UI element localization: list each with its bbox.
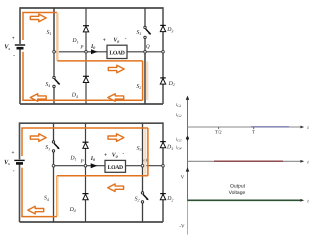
waveform vertical axis lower green-grey segment — [187, 201, 189, 235]
switch S2 open (bottom circuit) — [141, 192, 148, 203]
svg-text:Q: Q — [146, 44, 150, 50]
axis 3: output voltage time axis (green) — [188, 199, 302, 201]
wire: diode branch D1/D4 vertical x=85.5 (bottom circuit) — [85, 123, 87, 222]
svg-text:D3: D3 — [166, 27, 173, 33]
LOAD box (bottom circuit) — [105, 160, 126, 172]
svg-text:S3: S3 — [137, 146, 142, 152]
axis 3 arrowhead — [300, 199, 304, 202]
switch S1 open (bottom circuit) — [52, 141, 59, 152]
svg-text:+: + — [103, 37, 106, 43]
tick T/2 (axis 1) — [218, 127, 220, 129]
wire: right rail (top circuit) — [162, 7, 164, 104]
switch S4 closed (bottom circuit, straight blade) — [53, 166, 55, 222]
svg-text:-: - — [13, 53, 15, 59]
waveform axis diamond marker between plot2 and plot3 — [186, 167, 190, 171]
svg-text:-: - — [125, 36, 127, 42]
orange flow arrow right, top segment (top circuit) — [30, 14, 46, 22]
svg-text:LOAD: LOAD — [108, 165, 123, 171]
svg-text:D4: D4 — [69, 207, 76, 213]
svg-text:D2: D2 — [168, 81, 175, 87]
wire: switch branch S3/S2 vertical x=145 (top circuit) — [144, 8, 146, 26]
node junction right rail/load row (bottom circuit) — [162, 164, 165, 167]
svg-text:D3: D3 — [166, 145, 173, 151]
svg-text:Voltage: Voltage — [229, 190, 246, 196]
wire: orange current path S4 vertical pale band (bottom circuit) — [56, 176, 59, 216]
axis 2 red pulse segment — [214, 160, 283, 162]
orange flow arrow right, top segment east (bottom circuit) — [108, 134, 124, 142]
wire: top rail (bottom circuit) — [20, 122, 164, 124]
wire: left rail lower segment from battery (bottom circuit) — [19, 164, 21, 223]
wire: right rail (bottom circuit) — [162, 122, 164, 222]
node P junction (top circuit) — [85, 51, 88, 54]
svg-text:S3: S3 — [136, 30, 141, 36]
wire: orange current path S1 vertical core (top circuit) — [56, 13, 58, 61]
svg-text:P: P — [79, 44, 83, 50]
waveform vertical axis top arrowhead — [186, 96, 189, 100]
current arrow I0 (top circuit) — [91, 49, 98, 54]
current arrow I0 (bottom circuit) — [91, 163, 98, 168]
orange flow arrow left, bottom segment east (top circuit) — [108, 94, 124, 102]
wire: bottom rail (top circuit) — [20, 103, 163, 105]
svg-text:LOAD: LOAD — [109, 51, 124, 57]
wire: switch branch S1/S4 vertical x=53.5 (bottom circuit) — [53, 123, 55, 141]
orange flow arrow right, top segment west (bottom circuit) — [30, 134, 46, 142]
waveform axis diamond marker between plot1 and plot2 — [186, 136, 189, 141]
node Q junction (bottom circuit) — [141, 164, 144, 167]
svg-text:T: T — [252, 129, 255, 135]
wire: top rail (top circuit) — [20, 7, 163, 9]
axis 2: gating signal iG3/iG4 time axis — [188, 160, 303, 162]
wire: load row left segment P side (top circuit) — [54, 51, 107, 53]
wire: diode branch D1/D4 vertical x=86 (top circuit) — [85, 8, 87, 104]
battery Vs (bottom circuit) — [14, 160, 24, 163]
axis 2 arrowhead — [300, 160, 304, 163]
node junction at S-branch/load row (bottom circuit) — [52, 164, 55, 167]
wire: orange current path S3 vertical (bottom circuit) — [147, 128, 149, 176]
diode D2 (top circuit, right rail) — [160, 78, 166, 84]
switch S3 open (top circuit) — [144, 26, 151, 38]
wire: left rail lower segment from battery (top circuit) — [19, 48, 21, 104]
svg-text:V: V — [181, 174, 185, 180]
axis 1: gating signal iG1/iG2 time axis — [188, 126, 303, 128]
LOAD box (top circuit) — [107, 45, 127, 58]
svg-text:+: + — [12, 36, 15, 42]
wire: orange current path bottom horizontal (top circuit) — [22, 99, 142, 101]
switch S2 closed (top circuit, straight blade) — [144, 52, 146, 104]
wire: switch branch S1/S4 vertical x=54 (top circuit) — [53, 8, 55, 76]
svg-text:S4: S4 — [45, 82, 50, 88]
wire: orange current path under load (bottom circuit) — [57, 175, 148, 177]
svg-text:Output: Output — [230, 184, 246, 190]
wire: left rail upper segment to battery (bottom circuit) — [19, 122, 21, 159]
node junction right rail/load row (top circuit) — [162, 51, 165, 54]
wire: orange current path S1 vertical pale band (top circuit) — [56, 13, 59, 60]
wire: orange current path S4 vertical core (bottom circuit) — [56, 176, 58, 217]
svg-text:S2: S2 — [135, 196, 140, 202]
wire: switch branch S3/S2 vertical x=142.5 (bottom circuit) — [142, 166, 144, 192]
wire: orange current path S2 vertical (top circuit) — [142, 61, 144, 100]
svg-text:+: + — [12, 150, 15, 156]
wire: orange current path top horizontal (bottom circuit) — [21, 127, 148, 129]
switch S4 open (top circuit) — [53, 76, 60, 87]
svg-text:+: + — [104, 152, 107, 158]
diode D1 (bottom circuit) — [83, 142, 89, 148]
wire: orange current path left vertical lower (bottom circuit) — [21, 168, 23, 217]
svg-text:V0: V0 — [113, 38, 119, 44]
node Q junction (top circuit) — [144, 51, 147, 54]
diode D2 (bottom circuit, right rail) — [160, 194, 166, 200]
svg-text:S4: S4 — [44, 196, 49, 202]
diode D1 (top circuit) — [83, 26, 89, 32]
svg-text:D1: D1 — [69, 155, 76, 161]
wire: orange current path S2 pale band (top circuit) — [146, 62, 148, 101]
node junction at S-branch/load row (top circuit) — [53, 51, 56, 54]
wire: load row right segment Q side (top circuit) — [127, 51, 163, 53]
svg-text:-: - — [13, 168, 15, 174]
svg-text:D1: D1 — [71, 38, 78, 44]
svg-text:S1: S1 — [45, 145, 50, 151]
svg-text:S1: S1 — [47, 30, 52, 36]
wire: orange current path top horizontal (top circuit) — [22, 12, 57, 14]
wire: orange current path left vertical lower (top circuit) — [22, 52, 24, 101]
svg-text:-: - — [122, 151, 124, 157]
switch S3 closed (bottom circuit, straight blade) — [142, 123, 144, 166]
svg-text:-V: -V — [179, 224, 185, 230]
wire: left rail upper segment to battery (top circuit) — [19, 7, 21, 44]
switch S1 closed (top circuit, straight blade) — [53, 8, 55, 52]
svg-text:V0: V0 — [112, 153, 118, 159]
tick T (axis 1) — [253, 127, 255, 129]
axis 1 arrowhead — [300, 126, 304, 129]
svg-text:I0: I0 — [90, 44, 95, 50]
orange flow arrow right, under load (top circuit) — [108, 65, 124, 73]
diode D4 (top circuit) — [83, 76, 89, 82]
diode D3 (bottom circuit, right rail) — [160, 142, 166, 148]
battery Vs (top circuit) — [15, 45, 25, 48]
svg-text:T/2: T/2 — [215, 130, 222, 136]
wire: bottom rail (bottom circuit) — [20, 221, 164, 223]
svg-text:D2: D2 — [166, 196, 173, 202]
diode D4 (bottom circuit) — [83, 194, 89, 200]
wire: orange current path left vertical upper (bottom circuit) — [21, 128, 23, 156]
wire: load row left segment P side (bottom circuit) — [54, 165, 106, 167]
axis 1 blue pulse segment — [251, 126, 289, 128]
svg-text:S2: S2 — [136, 84, 141, 90]
wire: orange current path bottom horizontal (bottom circuit) — [21, 216, 57, 218]
orange flow arrow left, under load (bottom circuit) — [108, 184, 124, 192]
wire: orange current path S3 pale band (bottom circuit) — [144, 129, 146, 175]
orange flow arrow left, bottom segment west (top circuit) — [30, 94, 46, 102]
waveform vertical axis line — [187, 98, 189, 201]
svg-text:I0: I0 — [90, 156, 95, 162]
wire: orange current path left vertical upper (top circuit) — [22, 13, 24, 41]
svg-text:P: P — [80, 158, 84, 164]
wire: orange current path under load (top circuit) — [57, 60, 142, 62]
svg-text:D4: D4 — [71, 93, 78, 99]
node P junction (bottom circuit) — [84, 164, 87, 167]
diode D3 (top circuit, right rail) — [160, 25, 166, 31]
orange flow arrow left, bottom segment (bottom circuit) — [28, 206, 44, 214]
wire: load row right segment Q side (bottom circuit) — [126, 165, 164, 167]
